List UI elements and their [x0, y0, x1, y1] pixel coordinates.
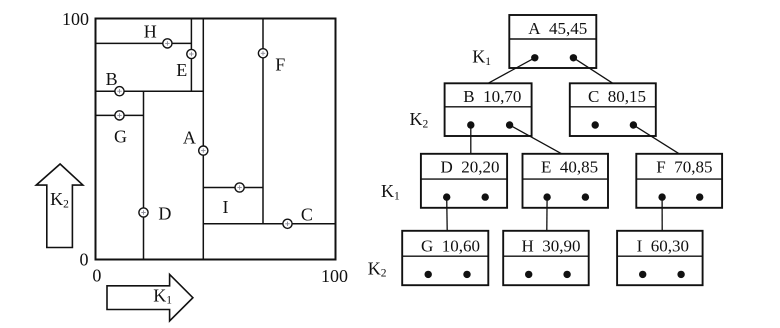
partition line G (horizontal y=60) — [96, 114, 144, 116]
partition line C (horizontal y=15) — [203, 223, 335, 225]
svg-text:A 45,45: A 45,45 — [528, 19, 587, 38]
svg-text:0: 0 — [80, 250, 89, 270]
svg-text:B 10,70: B 10,70 — [463, 87, 521, 106]
point G — [115, 111, 124, 120]
node F 70,85 — [636, 154, 722, 208]
node B 10,70 — [445, 83, 532, 136]
svg-text:G 10,60: G 10,60 — [421, 237, 480, 256]
partition line D (vertical x=20) — [143, 91, 145, 259]
point A — [199, 146, 208, 155]
node I 60,30 — [617, 231, 703, 285]
partition line I (horizontal y=30) — [203, 187, 263, 189]
edge A-right to C — [573, 58, 612, 84]
svg-text:100: 100 — [321, 266, 348, 286]
edge B-left to D — [470, 125, 472, 154]
svg-text:H: H — [144, 22, 157, 42]
edge A-left to B — [488, 58, 535, 84]
point I — [235, 183, 244, 192]
plot square — [96, 19, 336, 260]
node D 20,20 — [421, 154, 507, 208]
edge F-left to I — [661, 197, 663, 231]
svg-text:E 40,85: E 40,85 — [541, 158, 598, 177]
point F — [258, 49, 267, 58]
svg-text:G: G — [114, 127, 127, 147]
svg-text:D 20,20: D 20,20 — [440, 158, 499, 177]
svg-text:C 80,15: C 80,15 — [588, 87, 646, 106]
edge E-left to H — [546, 197, 548, 231]
point E — [187, 49, 196, 58]
K2 arrow (vertical) — [36, 164, 83, 248]
point C — [283, 219, 292, 228]
point H — [163, 39, 172, 48]
partition line E (vertical x=40) — [190, 19, 192, 92]
svg-text:0: 0 — [92, 266, 101, 286]
svg-text:A: A — [183, 128, 196, 148]
svg-text:100: 100 — [62, 9, 89, 29]
svg-text:F: F — [275, 55, 285, 75]
edge D-left to G — [446, 197, 449, 231]
svg-text:I 60,30: I 60,30 — [637, 237, 689, 256]
node C 80,15 — [570, 83, 656, 136]
partition line F (vertical x=70) — [262, 19, 264, 224]
svg-text:F 70,85: F 70,85 — [656, 158, 712, 177]
node G 10,60 — [402, 231, 488, 285]
svg-text:C: C — [301, 205, 313, 225]
point B — [115, 87, 124, 96]
svg-text:H 30,90: H 30,90 — [521, 237, 580, 256]
node H 30,90 — [503, 231, 589, 285]
partition line A (vertical x=45) — [202, 19, 204, 260]
edge C-right to F — [633, 125, 679, 154]
svg-text:E: E — [176, 60, 187, 80]
svg-text:D: D — [158, 203, 171, 223]
svg-text:B: B — [106, 69, 118, 89]
partition line B (horizontal y=70) — [96, 90, 204, 92]
point D — [139, 208, 148, 217]
edge B-right to E — [510, 125, 562, 154]
svg-text:I: I — [223, 197, 229, 217]
K1 arrow (horizontal) — [107, 274, 193, 321]
node A 45,45 — [509, 15, 596, 68]
partition line H (horizontal y=90) — [96, 42, 192, 44]
node E 40,85 — [523, 154, 609, 208]
